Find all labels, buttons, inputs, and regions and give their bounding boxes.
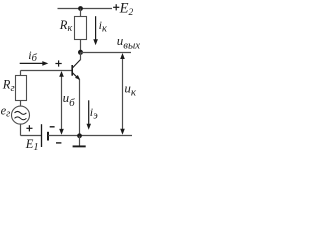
wire: Rk to collector node — [80, 40, 82, 53]
svg-text:E2: E2 — [119, 0, 134, 18]
resistor Rg body — [16, 76, 27, 101]
wire: +E2 top supply rail — [58, 8, 113, 10]
voltage arrow u_k / u_vyh double-headed — [120, 53, 125, 135]
svg-text:Rг: Rг — [2, 78, 15, 95]
label minus of E1 — [50, 126, 55, 128]
svg-text:Rк: Rк — [59, 18, 73, 34]
current arrow i_b — [20, 61, 49, 66]
AC source eg circle — [12, 106, 30, 124]
wire: collector output wire — [81, 52, 132, 54]
ground bar — [73, 145, 86, 147]
current arrow i_e — [87, 100, 92, 129]
transistor VT collector diagonal — [72, 60, 80, 68]
wire: source to bottom rail — [20, 124, 22, 135]
wire: left vertical from base wire to Rg — [20, 71, 22, 76]
minus sign below bottom rail under u_b — [56, 142, 61, 144]
svg-text:eг: eг — [1, 103, 11, 119]
node: top rail / Rk junction dot — [78, 6, 83, 11]
wire: base wire from source to transistor — [21, 70, 72, 72]
svg-text:uб: uб — [63, 90, 76, 109]
svg-text:uк: uк — [124, 81, 136, 99]
voltage arrow u_b double-headed — [59, 71, 64, 135]
ground stem — [79, 136, 81, 147]
AC source eg wave symbol — [15, 111, 27, 119]
battery E1 short plate — [47, 132, 49, 141]
svg-text:iк: iк — [99, 18, 107, 34]
svg-text:iб: iб — [28, 48, 37, 64]
wire: collector lead — [80, 52, 82, 60]
svg-text:iэ: iэ — [90, 105, 98, 122]
resistor Rk body — [75, 17, 87, 40]
label plus of E1 — [26, 125, 32, 131]
wire: top rail to Rk — [80, 9, 82, 17]
transistor VT emitter diagonal with arrow — [72, 73, 80, 80]
wire: bottom rail right segment — [48, 135, 132, 137]
plus sign of u_b at base — [55, 60, 61, 66]
wire: Rg to source eg — [20, 101, 22, 107]
battery E1 long plate — [41, 124, 43, 147]
node: collector junction dot — [78, 50, 83, 55]
label +E2 — [113, 0, 133, 18]
transistor VT base bar — [71, 65, 73, 76]
svg-text:E1: E1 — [25, 137, 39, 153]
node: emitter junction dot — [77, 133, 82, 138]
svg-text:uвых: uвых — [117, 33, 140, 51]
wire: bottom rail left segment — [21, 135, 42, 137]
current arrow i_k — [93, 16, 98, 45]
wire: emitter lead down to bottom rail — [79, 80, 81, 136]
